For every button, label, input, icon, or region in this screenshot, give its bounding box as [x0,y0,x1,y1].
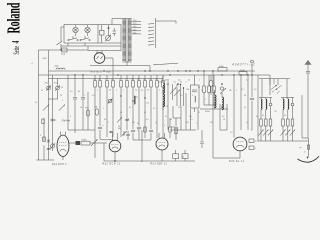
resistor hang2 [208,75,211,105]
ground symbol [298,156,320,162]
resistor comb R11 [155,75,158,92]
wire x302 right [301,95,303,138]
svg-text:0,1: 0,1 [110,132,113,134]
svg-text:0,1: 0,1 [93,79,96,81]
volume column 5 [285,98,290,142]
label strip50 [138,130,140,132]
label Ro3 EBF11 [151,164,168,166]
svg-text:5: 5 [116,90,117,92]
svg-text:µ: µ [40,134,41,136]
resistor 0,1 series [62,48,68,56]
wire x163 [162,92,164,138]
wire inside box x98 [97,25,99,44]
label Ro1 ECH4 [52,164,67,166]
svg-text:0,5: 0,5 [111,79,114,81]
svg-text:0,1: 0,1 [230,132,233,134]
wire x83 [81,75,85,130]
wire x68 [67,75,69,130]
trimmer C2 [54,83,60,91]
bus line heater y75 [39,74,271,76]
comb labels texture [97,89,160,91]
svg-text:0,2: 0,2 [153,108,155,110]
svg-text:5000: 5000 [219,66,225,68]
junction dot [108,25,110,36]
res box x43 [42,119,44,124]
wire x220 [219,104,221,130]
svg-text:5000: 5000 [159,82,163,84]
arrow left mid2 [59,105,65,111]
svg-text:0,1: 0,1 [120,112,122,114]
resistor comb R7 [131,75,134,92]
resistor comb R9 [143,75,146,92]
tube Ro2 ECH4 [109,133,121,161]
cap small1 [47,148,51,149]
wire x168b [167,83,168,106]
svg-text:0,1: 0,1 [262,115,264,117]
phono lead a [261,79,263,98]
tuning arrow if1b [174,90,180,97]
IF coil La [163,75,165,93]
grid cap Ro1 [69,141,80,145]
svg-text:0,2: 0,2 [149,79,152,81]
svg-text:0,1: 0,1 [174,82,176,84]
arrow left mid [35,102,49,111]
wire right join [302,138,309,156]
wire x180.5 [180,84,181,106]
volume column 4 [280,98,285,142]
wire x248 [247,75,249,130]
svg-text:4: 4 [164,125,165,127]
svg-text:1: 1 [199,80,200,82]
phono lead e [286,79,288,98]
wire x183.5 [183,87,184,106]
svg-text:50: 50 [144,112,146,114]
volume column 6 [290,98,295,142]
svg-text:5: 5 [159,89,160,91]
mid dots [120,95,145,101]
verticals mid lower [168,93,198,130]
wire y130 seg4 [170,129,196,131]
svg-text:Rö2 ECH 11: Rö2 ECH 11 [103,164,121,166]
junction dot if1 [177,83,179,85]
label strip4a [103,125,104,127]
label tap 110 [133,32,137,34]
svg-text:25: 25 [137,79,139,81]
page title Seite 4 Roland (rotated) [5,2,25,54]
wire x107 [106,92,108,137]
cross mark x48 [47,140,50,143]
label tap 150 [133,26,137,28]
oval R P10 [85,108,90,117]
svg-text:000: 000 [118,128,121,130]
resistor comb R2 [98,75,101,92]
svg-text:0,5: 0,5 [146,119,149,121]
labels row2 [159,82,187,84]
svg-text:1: 1 [103,108,104,110]
svg-text:25: 25 [60,95,62,97]
svg-text:1: 1 [205,99,206,101]
bottom bus seg2 [213,157,240,159]
mid labels texture [60,80,257,135]
svg-text:100: 100 [132,122,135,124]
svg-text:50: 50 [223,119,225,121]
trimmer C1 [45,83,52,91]
resistor comb R10 [149,75,152,92]
svg-text:50: 50 [104,119,106,121]
svg-text:50: 50 [166,106,168,108]
svg-text:5000: 5000 [55,66,59,68]
svg-text:2: 2 [236,90,237,92]
cap C3 [50,119,54,121]
phono top rail [259,78,290,80]
rectifier tube Ro6 AZ11 [94,51,113,76]
speckle labels [41,90,258,132]
IF2 coil b [222,92,223,110]
tube Ro1 ECH4 [57,132,69,161]
label colmid [275,111,277,113]
svg-text:0,1: 0,1 [241,89,244,91]
svg-text:1: 1 [105,79,106,81]
wire tie y99 [49,98,58,100]
res box x170 [169,118,171,138]
bus line y78.5 [49,78,164,80]
svg-text:1: 1 [161,79,162,81]
col tie top right [281,97,294,99]
wire y105 seg [204,104,214,106]
wire x48.5 low [48,99,50,160]
wire tube5 bottom [0,0,1,1]
osc coil small [134,96,135,104]
resistor comb R6 [125,75,128,92]
fuse Si [100,25,105,43]
label 25 [54,120,57,122]
label Ro2 ECH4 [103,164,121,166]
wire rect top rail [88,43,121,51]
wire transformer primary top [112,19,122,25]
transformer T1 [122,19,131,62]
svg-text:,Rö4 ##: ,Rö4 ## [62,120,71,123]
caps above tube2 [109,131,126,136]
wire x121 [120,92,122,137]
svg-text:Rö3 EBF 11: Rö3 EBF 11 [151,164,168,166]
label 25000 strip [118,126,121,130]
cap inside box [113,28,117,36]
svg-text:0,1: 0,1 [284,115,286,117]
wire box bottom left drop [61,43,121,46]
wire x176 cap [174,118,178,140]
wire x142 low [141,130,143,162]
wire x270 end [269,75,271,95]
wire x133 [131,92,135,140]
wire x100 [98,92,102,139]
svg-text:50: 50 [275,111,277,113]
svg-text:0,5: 0,5 [178,107,180,109]
resistor box R at 184 [182,150,188,161]
wire y109 [200,108,228,110]
cap right of tube5 [249,139,258,143]
label 70ohm [42,58,47,60]
svg-text:0,1: 0,1 [255,141,258,143]
svg-text:5: 5 [108,122,109,124]
tube Ro3 EBF11 [156,133,168,150]
svg-text:100: 100 [186,89,189,91]
svg-text:0,1: 0,1 [201,90,203,92]
svg-text:~70Ω: ~70Ω [42,58,47,60]
wire x44 low [43,118,45,160]
svg-text:1: 1 [255,148,256,150]
antenna [304,60,311,138]
wire x75 [73,75,77,133]
svg-text:0,5: 0,5 [254,89,257,91]
wire x57.5 [57,79,59,100]
wire y130 seg5 [220,129,227,131]
svg-text:~70: ~70 [60,87,63,89]
resistor hang1 [203,71,206,105]
svg-text:100: 100 [229,90,232,92]
wire x252 [250,60,254,130]
res box x145 [144,127,146,132]
resistor comb R4 [111,75,114,92]
coil L-ant [53,67,65,69]
svg-text:100: 100 [186,122,189,124]
svg-text:0,2: 0,2 [246,122,248,124]
dial lamp L1 [73,25,78,36]
svg-text:µn: µn [300,147,302,149]
junction dots bus [60,49,252,75]
svg-text:1: 1 [125,79,126,81]
mains connection box [64,25,121,44]
svg-text:2: 2 [156,122,157,124]
svg-text:50: 50 [188,80,190,82]
resistor 70000 [81,140,107,145]
wire right converge [258,140,309,142]
resistor comb R5 [119,75,122,92]
wire x202 part [200,130,204,148]
svg-text:4: 4 [103,125,104,127]
label 6500 [106,72,112,74]
oval choke [209,75,213,95]
box bandfilter [191,75,200,112]
arrow if2 [220,88,226,94]
label Ro4 [62,120,71,123]
resistor small x44 [40,134,45,141]
svg-text:50: 50 [167,82,169,84]
wire x258 drop [257,75,259,141]
tuning arrow Ro1 [91,139,98,146]
voltage selector switch [148,18,155,48]
resistor comb R8 [137,75,140,92]
svg-text:100: 100 [189,116,192,118]
wire x234 [233,75,235,138]
svg-text:Rö1 ECH 4: Rö1 ECH 4 [52,164,67,166]
svg-text:Rö5 EL 11: Rö5 EL 11 [229,161,245,163]
bottom bus left [37,159,55,161]
svg-text:0,5: 0,5 [92,95,94,97]
dial lamp feed arrow [154,63,179,65]
mains switch arrow [57,41,63,50]
col tie top left [259,97,272,99]
wire x151 [149,92,153,140]
svg-text:5: 5 [62,100,63,102]
svg-text:25: 25 [147,89,149,91]
svg-text:50: 50 [138,130,140,132]
svg-text:2: 2 [186,82,187,84]
svg-text:0,5: 0,5 [70,91,73,93]
svg-text:0,5: 0,5 [147,103,149,105]
variable tap V1 [105,35,111,41]
svg-text:0,1: 0,1 [131,79,134,81]
svg-text:0,1: 0,1 [35,102,38,104]
svg-text:Seite: Seite [13,46,22,55]
tuning arrow if1 [170,88,176,95]
switch S1a [68,36,78,41]
svg-text:0,1: 0,1 [244,107,246,109]
wire x113 [112,92,114,137]
svg-text:25: 25 [180,82,182,84]
wire x127 [126,92,128,130]
svg-text:4: 4 [10,41,21,44]
label col2 [284,115,286,117]
wire x172.5 [172,84,174,100]
IF coil Lb [163,90,165,110]
phono lead b [269,79,271,85]
svg-text:50: 50 [170,119,172,121]
annotation AVA977-JZ [231,63,255,67]
mark in box1 [192,90,197,92]
svg-text:50: 50 [98,79,100,81]
mid arrow c [117,117,122,122]
wire x241 [240,75,242,130]
wire y130 seg1 [68,129,95,131]
svg-text:2: 2 [119,79,120,81]
wire x104 low [103,143,105,161]
wire x95 low [94,92,96,158]
wire selector to dial [156,21,177,24]
svg-text:0,1: 0,1 [129,107,131,109]
mark in box2 [195,96,196,102]
svg-text:50: 50 [141,90,143,92]
svg-text:5000: 5000 [240,70,246,72]
wire y50 horizontal [39,49,89,51]
svg-text:2: 2 [97,89,98,91]
tie y118 [173,117,181,119]
box right tube3 [173,150,179,161]
volume column 2 [263,98,268,142]
tube Ro3 lead [161,150,163,161]
svg-text:1: 1 [123,89,124,91]
svg-text:50: 50 [137,123,139,125]
wire x177 [176,84,178,106]
svg-text:2: 2 [48,108,49,110]
svg-text:50: 50 [256,116,258,118]
svg-text:0,1: 0,1 [198,112,200,114]
svg-text:50: 50 [165,116,167,118]
cap between t2 t3 [126,131,130,140]
label tap 220 [133,20,137,22]
label tap 175 [133,23,137,25]
mid txt extra [136,97,149,105]
volume column 3 [268,98,273,142]
svg-text:0,1: 0,1 [135,89,137,91]
cap right of tube5 b [249,146,256,150]
label Ro5 EL11 [229,161,245,163]
resistor hang3 [213,75,216,105]
svg-text:50: 50 [78,91,80,93]
wire x213 long [212,71,214,158]
label coil5000 [55,66,59,68]
svg-text:50: 50 [41,90,43,92]
svg-text:2: 2 [192,95,193,97]
svg-text:2: 2 [196,123,197,125]
label tap 125 [133,29,137,31]
svg-text:100: 100 [210,122,213,124]
resistor comb R12 [161,75,164,92]
wire box-left lead [61,27,64,41]
svg-text:6500: 6500 [106,72,112,74]
label x7 left [31,62,34,65]
volume column 1 [258,98,263,142]
wire transformer bottom lead [127,62,150,71]
small circle if2 [220,83,223,90]
svg-text:70000: 70000 [81,140,86,142]
wire y130 seg2 [100,139,113,141]
resistor comb R1 [93,75,96,92]
svg-text:50: 50 [136,97,138,99]
varcap C6 [50,143,55,148]
dial lamp L2 [85,25,90,36]
label strip4b [164,125,165,127]
svg-text:5: 5 [251,130,252,132]
resistor 5000 on bus2 [239,70,247,75]
svg-text:50: 50 [143,79,145,81]
wire x157 [156,92,158,138]
tube Ro5 EL11 [233,137,247,158]
trimmer mid circle [108,99,113,104]
svg-text:50: 50 [80,107,82,109]
wire x139 [137,92,141,140]
bottom bus mid [104,160,195,162]
phono lead d [277,79,279,85]
label col1 [262,115,264,117]
wire y65.5 under rect [90,65,150,67]
wire x227 [226,104,228,130]
wire x145 [144,92,146,138]
svg-text:50: 50 [244,95,246,97]
svg-text:5: 5 [70,116,71,118]
resistor 5000 on bus [218,66,227,71]
resistor 500 [171,127,177,134]
phono lead c [273,79,275,84]
resistor comb R3 [105,75,108,92]
svg-text:Roland: Roland [5,2,25,33]
transformer secondary taps [132,22,141,34]
wire x52.5 [52,75,54,99]
wire y130 seg3 [133,139,151,141]
svg-text:0,2: 0,2 [222,116,224,118]
switch S1b [80,36,90,41]
wire x48.5 vertical [48,50,50,99]
svg-text:50: 50 [109,89,111,91]
label 5000 under [205,111,210,113]
node corner left border [38,50,40,160]
svg-text:1: 1 [84,95,85,97]
bus line B+ y71 [49,70,256,72]
svg-text:50: 50 [155,79,157,81]
mid cap c [125,119,129,120]
resistor ant [300,145,310,153]
wire x52.5 low [52,99,54,151]
pickup arrows [271,85,282,94]
